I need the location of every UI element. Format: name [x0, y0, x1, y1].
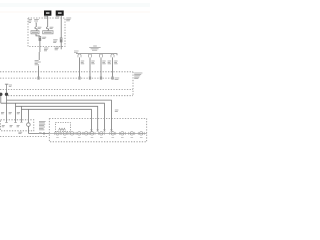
lamp 2 [62, 132, 68, 135]
lamp 9 [119, 132, 125, 135]
terminal pin [38, 77, 40, 80]
inline connector on wire [60, 38, 62, 42]
lamp 4 [76, 132, 82, 135]
stair wire L3 [16, 106, 98, 131]
boundary label right [134, 73, 142, 79]
harness boundary dashed line D2 [0, 77, 114, 79]
wire into splice S1 [6, 88, 8, 92]
harness boundary dashed line D3 [0, 89, 133, 91]
drop wire x21.4 [20, 106, 22, 122]
drop wire x28.4 [27, 109, 29, 123]
arrow end [5, 121, 7, 124]
bus label [89, 46, 100, 51]
connector label [42, 37, 46, 39]
feed arrow into fuse F3 [35, 23, 37, 25]
wire labels bottom-left [1, 112, 20, 114]
fuse block label (right of box) [66, 18, 71, 22]
splice S1 [5, 93, 8, 96]
fuse F3 value label [38, 27, 42, 29]
label inside box top-left [29, 19, 32, 23]
lamp 7 [98, 132, 104, 135]
lamp 10 [129, 132, 135, 135]
faint scan tint band [0, 3, 150, 7]
sub box inside cluster [55, 123, 70, 132]
lamp 11 [138, 132, 144, 135]
instrument cluster dashed box [49, 119, 146, 142]
dashed box A (bottom-left connector box) [1, 120, 34, 131]
lamp terminal labels [56, 136, 142, 139]
label below fuse box at exit [44, 48, 48, 52]
bus start label [74, 51, 79, 53]
labels inside box A [2, 125, 20, 127]
label under F2 [56, 16, 60, 18]
harness boundary dashed line D4 [8, 95, 133, 97]
fuse holder box F3 [31, 31, 39, 34]
lamp module circle in box A [27, 123, 31, 127]
lamp row bus [49, 132, 146, 134]
fuse F4 [46, 27, 48, 30]
feed arrow into splice [5, 84, 8, 88]
pin label [115, 78, 120, 80]
wire [35, 24, 37, 27]
fuse F4 value label [50, 27, 54, 29]
connector pin drop 4 [108, 54, 120, 80]
gauge zigzag [59, 128, 66, 130]
connector label (left) [53, 39, 57, 43]
label inside box top-mid [34, 19, 39, 21]
lamp 3 [69, 132, 75, 135]
wire label (0.8 ORN) [35, 60, 41, 65]
stair wire L4 [21, 109, 91, 131]
splice S2 [0, 93, 3, 96]
boundary dashed vertical [132, 72, 134, 96]
connector pin drop 3 [99, 54, 105, 79]
inline connector on F3 output [39, 36, 41, 40]
fusible link F2 (top right black box) [56, 11, 64, 16]
dashed line below [0, 136, 47, 138]
label under F1 [44, 16, 48, 18]
wire from F1 box down to fuse F4 [47, 16, 49, 27]
fuse F3 [35, 27, 37, 30]
cluster label (left of box) [39, 121, 46, 130]
wire from F3 to connector [36, 34, 40, 36]
cluster feed bus [76, 54, 117, 56]
lamp 1 [55, 132, 61, 135]
wire from F2 box straight down [60, 16, 62, 38]
stair wire L1 [7, 100, 112, 131]
wire S2 down to L2 [0, 96, 2, 103]
stub label [55, 47, 60, 51]
connector pin drop 2 [88, 54, 94, 79]
drop wire x15.5 [15, 103, 17, 121]
stair corner label [115, 110, 119, 112]
connector pin drop 1 [78, 54, 84, 79]
lamp 5 [83, 132, 89, 135]
wire down from connector [39, 41, 41, 52]
wire stub below connector [60, 42, 62, 49]
stair wire L2 [1, 103, 105, 131]
fuse holder box F4 [43, 31, 53, 34]
harness boundary dashed line D1 [0, 71, 133, 73]
wire to cluster [28, 132, 49, 134]
wire S1 down [6, 96, 8, 122]
lamp 8 [110, 132, 116, 135]
terminal ticks on stair drops [90, 130, 92, 132]
wire continues [38, 66, 40, 77]
fusible link F1 (top left black box) [44, 11, 51, 16]
label below box A [18, 132, 22, 134]
underhood fuse block dashed box [28, 18, 65, 47]
lamp 6 [89, 132, 95, 135]
